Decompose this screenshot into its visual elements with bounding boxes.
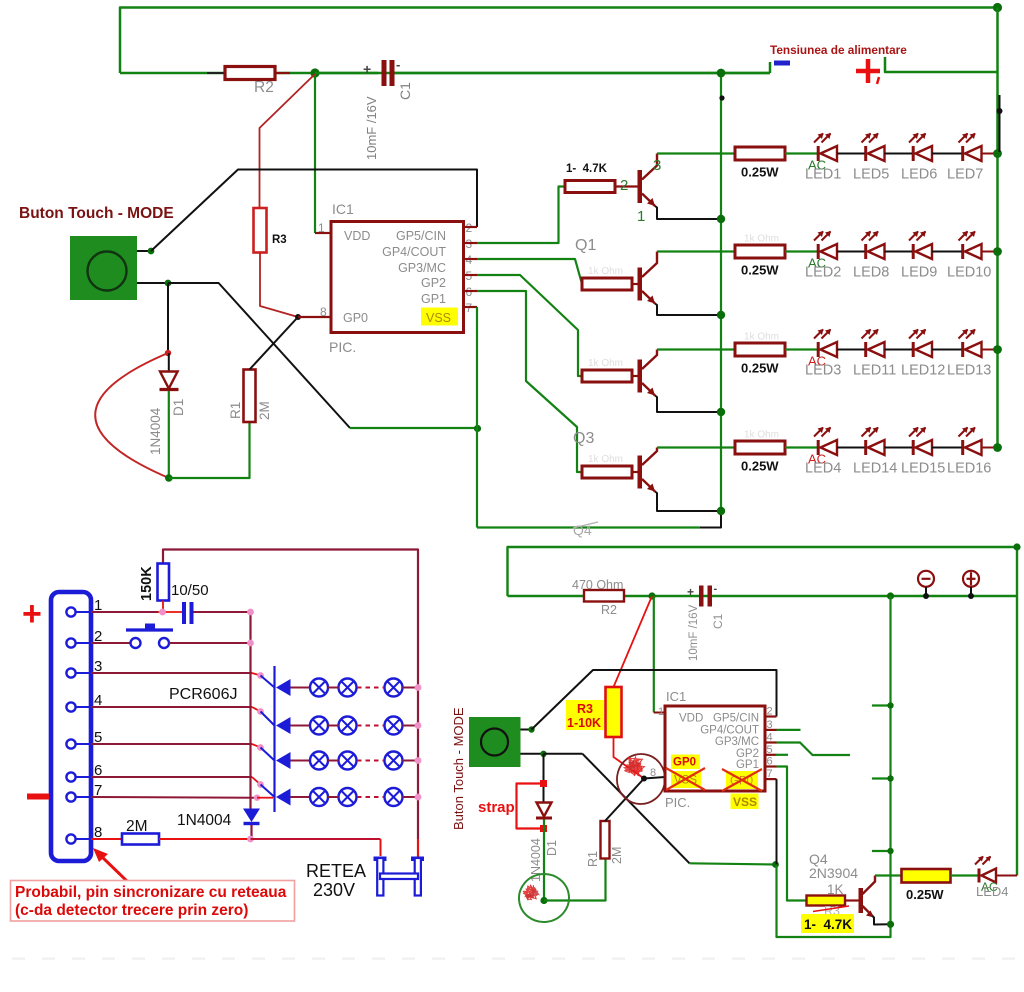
svg-text:1k Ohm: 1k Ohm bbox=[744, 332, 779, 343]
resistor 0.25W (bottom, yellow) bbox=[902, 869, 951, 883]
svg-text:LED1: LED1 bbox=[805, 167, 841, 183]
LED LED13 bbox=[961, 342, 964, 357]
connector pin 4 bbox=[76, 706, 92, 708]
LED LED7 bbox=[961, 146, 964, 161]
svg-text:GP1: GP1 bbox=[736, 759, 759, 771]
wire - collector row 3 to resistor bbox=[657, 348, 735, 350]
wire - pin1 row bbox=[91, 611, 158, 613]
svg-text:IC1: IC1 bbox=[666, 689, 686, 704]
svg-text:150K: 150K bbox=[139, 566, 155, 601]
VSS highlight below (bottom IC) bbox=[731, 794, 759, 810]
lamp group row 1 bbox=[310, 679, 328, 697]
svg-text:LED6: LED6 bbox=[901, 167, 937, 183]
annotation arrow (red) bbox=[99, 854, 130, 884]
LED LED3 bbox=[817, 342, 820, 357]
connector pin 6 bbox=[76, 776, 92, 778]
LED LED1 bbox=[817, 146, 820, 161]
resistor R2 470 Ohm (bottom) bbox=[584, 590, 624, 602]
LED LED6 bbox=[912, 146, 915, 161]
terminal minus (bottom right) bbox=[918, 571, 934, 587]
wire - pin6 to triac 4 gate bbox=[91, 776, 252, 778]
wire - to R1 bottom bbox=[169, 422, 250, 478]
wire - top supply loop (green) bbox=[120, 8, 998, 74]
wire - resistor to LED row 3 bbox=[785, 348, 817, 350]
svg-text:-: - bbox=[396, 57, 400, 72]
svg-text:RETEA: RETEA bbox=[306, 861, 366, 881]
svg-text:GP3/MC: GP3/MC bbox=[398, 261, 446, 275]
svg-text:10/50: 10/50 bbox=[171, 582, 209, 599]
node - D1 bottom junction bbox=[165, 474, 173, 482]
LED LED12 bbox=[912, 342, 915, 357]
LED4 (bottom) bbox=[978, 869, 981, 883]
svg-text:LED9: LED9 bbox=[901, 265, 937, 281]
supply plus symbol (red) bbox=[856, 69, 880, 74]
svg-text:-: - bbox=[714, 583, 718, 595]
stub nubs on rail bbox=[872, 704, 891, 706]
wire - collector row 2 to resistor bbox=[657, 250, 735, 252]
resistor 0.25W row 2 bbox=[735, 245, 785, 258]
svg-text:(c-da detector trecere prin ze: (c-da detector trecere prin zero) bbox=[15, 902, 248, 919]
svg-text:LED14: LED14 bbox=[853, 461, 897, 477]
wire - to R1 (bottom) bbox=[544, 859, 606, 901]
wire - pin3 to triac 1 gate bbox=[91, 672, 252, 674]
svg-text:D1: D1 bbox=[545, 840, 559, 856]
wires between LEDs row 2 bbox=[837, 251, 865, 253]
svg-text:+: + bbox=[687, 585, 694, 599]
node - junction at R2 bbox=[648, 592, 655, 599]
svg-text:Q1: Q1 bbox=[575, 237, 596, 254]
wire - pin5 to Q3 base resistor bbox=[477, 275, 582, 376]
svg-text:0.25W: 0.25W bbox=[741, 361, 779, 376]
wires between LEDs row 4 bbox=[837, 447, 865, 449]
wire - plus to right rail bbox=[885, 57, 998, 72]
svg-text:LED3: LED3 bbox=[805, 363, 841, 379]
wires between LEDs row 3 bbox=[837, 349, 865, 351]
capacitor 10/50 (blue) bbox=[182, 602, 186, 624]
LED LED4 bbox=[817, 440, 820, 455]
Q4 body bbox=[845, 899, 859, 901]
svg-text:10mF /16V: 10mF /16V bbox=[364, 96, 379, 160]
svg-text:1: 1 bbox=[318, 221, 325, 235]
svg-text:PIC.: PIC. bbox=[329, 339, 356, 355]
IC1 PIC (top) bbox=[298, 316, 331, 318]
touch button pad (bottom) bbox=[469, 717, 521, 767]
svg-text:0.25W: 0.25W bbox=[741, 165, 779, 180]
wire - red junction to R3 (bottom) bbox=[614, 596, 653, 687]
wire - triac 2 to lamps bbox=[291, 725, 311, 727]
svg-text:3: 3 bbox=[653, 157, 661, 174]
svg-text:1: 1 bbox=[658, 706, 664, 718]
wire - VSS bottom to emitter bus bbox=[477, 526, 700, 528]
wire - resistor to LED row 4 bbox=[785, 446, 817, 448]
svg-text:GP1: GP1 bbox=[421, 292, 446, 306]
svg-text:C1: C1 bbox=[711, 613, 725, 629]
wire - R1 top to GP0 node bbox=[250, 317, 299, 370]
diode 1N4004 (blue, bottom-left) bbox=[243, 809, 260, 823]
touch button pad (top) bbox=[70, 236, 137, 300]
svg-text:GP4/COUT: GP4/COUT bbox=[382, 245, 446, 259]
resistor 150K (blue) bbox=[158, 564, 170, 601]
wire - VDD vertical to pin1 (bottom IC) bbox=[653, 596, 655, 713]
svg-text:2M: 2M bbox=[257, 401, 272, 420]
resistor 0.25W row 1 bbox=[735, 147, 785, 160]
wire - pin6 to Q4 base resistor bbox=[477, 291, 582, 472]
wire - emitter rail vertical x=890 bbox=[889, 596, 891, 925]
svg-text:LED2: LED2 bbox=[805, 265, 841, 281]
LED LED14 bbox=[864, 440, 867, 455]
svg-text:D1: D1 bbox=[171, 399, 186, 416]
svg-text:LED7: LED7 bbox=[947, 167, 983, 183]
svg-text:LED5: LED5 bbox=[853, 167, 889, 183]
scribble - GP0 node bbox=[624, 757, 644, 775]
transistor Q4 (top) bbox=[582, 466, 632, 478]
svg-text:1K: 1K bbox=[827, 882, 844, 897]
connector pin 7 bbox=[76, 796, 92, 798]
VSS highlight (top IC) bbox=[421, 308, 458, 326]
GP0 highlight (bottom IC) bbox=[671, 755, 700, 770]
svg-text:VDD: VDD bbox=[344, 229, 370, 243]
svg-text:Probabil, pin sincronizare cu: Probabil, pin sincronizare cu reteaua bbox=[15, 884, 287, 901]
wire - button lower to X cross bbox=[137, 282, 168, 284]
connector pin 3 bbox=[76, 672, 92, 674]
wire - button lower (bottom) bbox=[521, 753, 544, 755]
label 1-4.7K yellow (bottom) bbox=[801, 914, 854, 933]
wire - green to VSS junction bbox=[350, 427, 478, 429]
transistor Q1 (top) bbox=[565, 181, 615, 193]
capacitor C1 (top) bbox=[315, 72, 378, 75]
mains plug symbol RETEA 230V (blue) bbox=[374, 857, 387, 862]
LED LED15 bbox=[912, 440, 915, 455]
resistor 2M (blue) bbox=[91, 838, 122, 840]
svg-text:2N3904: 2N3904 bbox=[809, 865, 858, 881]
resistor R1 2M (top) bbox=[244, 370, 256, 423]
svg-text:R1: R1 bbox=[586, 851, 600, 867]
triac 3 (blue) bbox=[261, 748, 275, 761]
resistor 1K (yellow) bbox=[807, 896, 846, 906]
crossed GP0 (bottom IC right) bbox=[726, 771, 758, 789]
wire - right border red lower part bbox=[417, 839, 419, 857]
svg-text:1k Ohm: 1k Ohm bbox=[744, 234, 779, 245]
resistor 0.25W row 3 bbox=[735, 343, 785, 356]
strap wire (red) bbox=[517, 784, 544, 829]
LED LED2 bbox=[817, 244, 820, 259]
wire - pin4 stub (bottom) bbox=[777, 743, 851, 756]
hand circle - GP0 node bbox=[614, 751, 668, 807]
resistor 0.25W row 4 bbox=[735, 441, 785, 454]
svg-text:2M: 2M bbox=[610, 847, 624, 864]
svg-text:8: 8 bbox=[320, 305, 327, 319]
LED LED16 bbox=[961, 440, 964, 455]
svg-text:LED16: LED16 bbox=[947, 461, 991, 477]
LED LED5 bbox=[864, 146, 867, 161]
resistor R2 (top) bbox=[207, 72, 226, 74]
svg-text:10mF /16V: 10mF /16V bbox=[688, 604, 700, 661]
svg-text:2: 2 bbox=[620, 177, 628, 194]
wire - red R3 to GP0 node bbox=[260, 253, 298, 318]
wire - triac 3 to lamps bbox=[291, 760, 311, 762]
triac 1 (blue) bbox=[261, 676, 275, 688]
svg-text:8: 8 bbox=[650, 767, 656, 779]
svg-text:1k Ohm: 1k Ohm bbox=[588, 454, 623, 465]
svg-text:GP0: GP0 bbox=[673, 757, 696, 769]
node - D1 bottom bbox=[540, 897, 547, 904]
wire - pin6 to 1K (bottom) bbox=[777, 767, 807, 901]
svg-text:1k Ohm: 1k Ohm bbox=[744, 430, 779, 441]
wire - VSS pin7 down bbox=[476, 307, 478, 528]
svg-text:1- 4.7K: 1- 4.7K bbox=[804, 917, 852, 932]
lamp group row 2 bbox=[310, 717, 328, 735]
svg-text:strap: strap bbox=[478, 799, 515, 816]
capacitor C1 (bottom) bbox=[699, 586, 704, 607]
svg-text:1: 1 bbox=[637, 208, 645, 225]
svg-text:LED10: LED10 bbox=[947, 265, 991, 281]
triac 2 (blue) bbox=[261, 712, 275, 726]
triac common line (blue) bbox=[273, 666, 275, 812]
svg-text:1N4004: 1N4004 bbox=[177, 812, 232, 829]
label R3 1-10K yellow box bbox=[566, 700, 604, 730]
svg-text:GP0: GP0 bbox=[343, 311, 368, 325]
svg-text:R2: R2 bbox=[254, 79, 274, 96]
annotation box - Probabil bbox=[11, 881, 295, 922]
wire - pin5 to triac 3 gate bbox=[91, 743, 252, 745]
lamp group row 3 bbox=[310, 752, 328, 770]
wire - tick up at supply minus bbox=[769, 62, 772, 73]
node - junction R2/C1 bbox=[310, 68, 319, 77]
svg-text:LED13: LED13 bbox=[947, 363, 991, 379]
wire - button to pin2 (bottom) bbox=[521, 729, 532, 731]
svg-text:R3: R3 bbox=[577, 702, 593, 716]
wire - supply row y=596 bbox=[508, 595, 1018, 597]
wire - right supply rail bbox=[996, 8, 999, 448]
resistor R3 (top, red) bbox=[254, 208, 267, 253]
svg-text:470 Ohm: 470 Ohm bbox=[572, 578, 623, 592]
svg-text:LED11: LED11 bbox=[853, 363, 896, 379]
wire - red from junction to R3 bbox=[260, 74, 316, 208]
wire - red arc bypass bbox=[95, 353, 169, 478]
diode D1 1N4004 (top) bbox=[168, 353, 170, 372]
connector pin 2 bbox=[76, 642, 92, 644]
emitter bus (green vertical) bbox=[720, 73, 722, 511]
LED LED8 bbox=[864, 244, 867, 259]
svg-text:R2: R2 bbox=[601, 603, 617, 617]
svg-text:C1: C1 bbox=[397, 82, 413, 100]
svg-text:VSS: VSS bbox=[426, 311, 451, 325]
wire - outer border (bottom right) bbox=[508, 547, 1018, 876]
svg-text:Buton Touch - MODE: Buton Touch - MODE bbox=[451, 707, 466, 830]
triac 4 (blue) bbox=[261, 785, 275, 798]
connector pin 8 bbox=[76, 838, 92, 840]
svg-text:LED15: LED15 bbox=[901, 461, 945, 477]
wire - VDD green vertical to pin1 bbox=[314, 73, 316, 233]
svg-text:LED4: LED4 bbox=[976, 884, 1009, 899]
svg-text:LED4: LED4 bbox=[805, 461, 841, 477]
svg-text:LED8: LED8 bbox=[853, 265, 889, 281]
faint bottom dashes bbox=[12, 958, 25, 960]
svg-text:230V: 230V bbox=[313, 880, 355, 900]
svg-text:0.25W: 0.25W bbox=[906, 887, 944, 902]
terminal plus (bottom right) bbox=[963, 571, 979, 587]
wire - triac 1 to lamps bbox=[291, 687, 311, 689]
svg-text:GP5/CIN: GP5/CIN bbox=[396, 229, 446, 243]
wire - horizontal supply y=73 bbox=[120, 72, 770, 75]
svg-text:R1: R1 bbox=[228, 402, 243, 419]
svg-text:GP2: GP2 bbox=[421, 276, 446, 290]
hand circle - bottom left scribble bbox=[517, 872, 572, 925]
wire - red R3 to GP0 node bbox=[614, 737, 645, 779]
node - row 1 right rail bbox=[993, 149, 1002, 158]
push button S1 (blue) bbox=[91, 642, 130, 644]
wire - triac 4 to lamps bbox=[291, 796, 311, 798]
resistor R3 1-10K (bottom, yellow) bbox=[606, 687, 622, 737]
svg-text:Buton Touch - MODE: Buton Touch - MODE bbox=[19, 205, 174, 222]
svg-text:1- 4.7K: 1- 4.7K bbox=[566, 163, 608, 175]
crossed VSS (bottom IC left) bbox=[671, 771, 701, 788]
wire - button to GP5 sense bbox=[137, 250, 151, 252]
LED LED11 bbox=[864, 342, 867, 357]
wires between LEDs row 1 bbox=[837, 153, 865, 155]
svg-text:PCR606J: PCR606J bbox=[169, 686, 237, 703]
svg-text:GP5/CIN: GP5/CIN bbox=[713, 713, 759, 725]
wire - button to D1 (bottom) bbox=[543, 754, 545, 803]
wire - collector row 1 to resistor bbox=[657, 152, 735, 154]
svg-text:+: + bbox=[22, 595, 42, 633]
black remnant top right bbox=[999, 95, 1001, 152]
svg-text:2M: 2M bbox=[126, 818, 148, 835]
LED LED10 bbox=[961, 244, 964, 259]
wire - resistor to LED row 1 bbox=[785, 152, 817, 154]
svg-text:Q3: Q3 bbox=[573, 430, 594, 447]
node - row 4 right rail bbox=[993, 443, 1002, 452]
wire - pin3 stub (bottom) bbox=[777, 729, 801, 731]
svg-text:VDD: VDD bbox=[679, 713, 703, 725]
svg-text:LED12: LED12 bbox=[901, 363, 945, 379]
node - row 3 right rail bbox=[993, 345, 1002, 354]
svg-text:GP4/COUT: GP4/COUT bbox=[700, 725, 759, 737]
wire - collector row 4 to resistor bbox=[657, 446, 735, 448]
transistor Q3 (top) bbox=[582, 370, 632, 382]
supply minus symbol (blue) bbox=[774, 61, 790, 66]
wire - pin4 to triac 2 gate bbox=[91, 706, 252, 708]
diode D1 1N4004 (bottom) bbox=[537, 803, 552, 817]
svg-text:1k Ohm: 1k Ohm bbox=[588, 266, 623, 277]
svg-text:1N4004: 1N4004 bbox=[148, 407, 163, 455]
label - minus terminal bbox=[27, 794, 49, 800]
svg-text:IC1: IC1 bbox=[332, 201, 354, 217]
lamp group row 4 bbox=[310, 788, 328, 806]
connector J1 (blue) bbox=[51, 592, 91, 861]
svg-text:PIC.: PIC. bbox=[665, 795, 690, 810]
resistor R1 2M (bottom) bbox=[601, 821, 610, 859]
wire - button lower to D1 bbox=[167, 283, 169, 353]
wire - pin8 row to mains bbox=[159, 838, 251, 840]
wire - pin5 stub (bottom) bbox=[776, 754, 789, 756]
svg-text:R3: R3 bbox=[272, 234, 287, 246]
node - row 2 right rail bbox=[993, 247, 1002, 256]
svg-text:Tensiunea de alimentare: Tensiunea de alimentare bbox=[770, 43, 907, 57]
wire - R1 top to GP0 node bbox=[605, 779, 644, 822]
node - supply to emitter rail bbox=[887, 592, 894, 599]
wire - pin7 row bbox=[91, 796, 256, 799]
wire - pin4 to Q2 base resistor bbox=[477, 259, 582, 284]
LED LED9 bbox=[912, 244, 915, 259]
transistor Q2 (top) bbox=[582, 278, 632, 290]
svg-text:0.25W: 0.25W bbox=[741, 459, 779, 474]
wire - collector to 0.25W (bottom) bbox=[875, 874, 902, 876]
wire - pin3 to Q1 base resistor bbox=[477, 187, 565, 244]
svg-text:1-10K: 1-10K bbox=[567, 716, 601, 730]
svg-text:GP3/MC: GP3/MC bbox=[715, 736, 759, 748]
connector pin 5 bbox=[76, 743, 92, 745]
wire - pin7 down to emitter loop bbox=[776, 779, 778, 864]
svg-text:VSS: VSS bbox=[733, 795, 757, 809]
wire - resistor to LED row 2 bbox=[785, 250, 817, 252]
connector pin 1 bbox=[76, 611, 92, 613]
svg-text:1k Ohm: 1k Ohm bbox=[588, 358, 623, 369]
node - top right corner junction bbox=[993, 3, 1002, 12]
wire - maroon top border bbox=[163, 550, 418, 840]
wire - maroon vertical bus x=250 bbox=[249, 612, 251, 809]
IC1 PIC (bottom) bbox=[665, 706, 765, 791]
svg-text:0.25W: 0.25W bbox=[741, 263, 779, 278]
svg-text:+: + bbox=[363, 61, 371, 77]
